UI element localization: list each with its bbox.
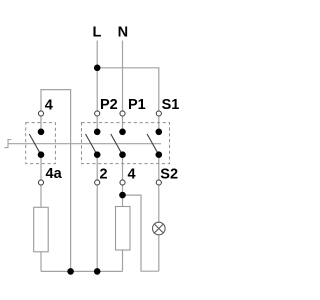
switch lever D — [111, 134, 122, 154]
contact dot switch A top — [38, 129, 45, 136]
svg-text:S2: S2 — [160, 166, 178, 182]
svg-text:4: 4 — [45, 98, 53, 114]
resistor load A — [34, 207, 49, 252]
contact dot switch E top — [156, 129, 163, 136]
wire terminal 4 loop to bottom bus — [41, 90, 71, 272]
wire lamp to return — [158, 235, 160, 271]
switch lever A — [29, 134, 40, 154]
wire S2 to lamp — [158, 186, 160, 223]
mechanical linkage line — [4, 140, 161, 148]
wire L feed vertical — [96, 41, 98, 111]
contact dot switch D top — [119, 129, 126, 136]
resistor load D — [116, 207, 131, 251]
terminal circle 4 bottom — [120, 180, 125, 185]
svg-text:L: L — [93, 25, 102, 41]
terminal circle 4a — [38, 180, 43, 185]
terminal circle 4 top — [38, 111, 43, 116]
dashed enclosure left switch box — [26, 123, 56, 164]
switch lever E — [147, 134, 158, 154]
svg-text:P2: P2 — [100, 97, 118, 113]
contact dot switch A bottom — [38, 151, 45, 158]
wire resistor A to bus — [40, 252, 42, 272]
wire 4-circle to switch A — [40, 117, 42, 132]
wire 4-bottom to resistor D — [122, 186, 124, 207]
terminal circle P1 — [120, 111, 125, 116]
wire 4a to resistor A — [40, 186, 42, 208]
dashed enclosure main switch box — [82, 123, 170, 164]
wire resistor D to bus — [122, 250, 124, 271]
lamp E — [153, 222, 166, 235]
wire switch C to 2 — [96, 155, 98, 180]
wire S1 to switch E — [158, 117, 160, 132]
svg-text:P1: P1 — [128, 97, 146, 113]
linkage break symbol — [4, 140, 11, 148]
wire N feed vertical — [122, 41, 124, 111]
svg-text:4: 4 — [128, 166, 136, 182]
contact dot switch E bottom — [156, 151, 163, 158]
svg-text:2: 2 — [100, 166, 108, 182]
wire switch A to 4a — [40, 155, 42, 180]
contact dot switch C top — [94, 129, 101, 136]
wire bottom bus — [41, 270, 123, 272]
wire lamp return loop — [123, 195, 159, 271]
junction dot node 4 lamp tap — [119, 192, 126, 199]
wire switch D to 4 — [122, 155, 124, 180]
contact dot switch D bottom — [119, 151, 126, 158]
wire P2 to switch C — [96, 117, 98, 132]
junction dot bus loop — [67, 268, 74, 275]
terminal circle P2 — [95, 111, 100, 116]
terminal circle S2 — [156, 180, 161, 185]
wire switch E to S2 — [158, 155, 160, 180]
wire P1 to switch D — [122, 117, 124, 132]
switch lever C — [86, 134, 97, 154]
svg-text:N: N — [118, 25, 128, 41]
terminal circle 2 — [95, 180, 100, 185]
wire L junction to S1 horizontal — [97, 68, 159, 111]
svg-text:4a: 4a — [46, 166, 63, 182]
junction dot bus 2 — [94, 268, 101, 275]
junction dot L feed — [94, 65, 101, 72]
svg-text:S1: S1 — [162, 97, 180, 113]
wire 2 to bus — [96, 186, 98, 272]
terminal circle S1 — [156, 111, 161, 116]
contact dot switch C bottom — [94, 151, 101, 158]
